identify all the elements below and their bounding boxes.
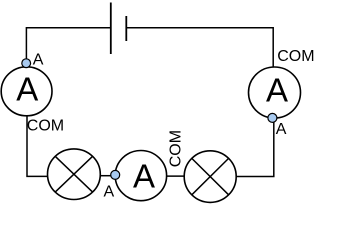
ammeter 3 middle (meter body) — [115, 151, 166, 201]
ammeter 1 left (meter body) — [1, 67, 52, 116]
node dot A terminal of ammeter 3 (blue junction) — [111, 170, 120, 179]
battery short plate (negative) — [125, 16, 127, 41]
battery long plate (positive) — [110, 3, 112, 55]
lamp 2 (bulb body) — [184, 151, 236, 203]
wire middle ammeter COM terminal to lamp 2 — [167, 175, 185, 177]
lamp 1 X cross — [55, 156, 92, 192]
svg-text:A: A — [104, 184, 115, 201]
svg-text:A: A — [133, 157, 155, 194]
svg-text:COM: COM — [27, 117, 64, 134]
node dot A terminal of ammeter 1 (blue junction) — [22, 59, 31, 68]
node dot A terminal of ammeter 2 (blue junction) — [268, 113, 277, 122]
lamp 2 X cross — [192, 158, 229, 194]
svg-text:A: A — [33, 52, 44, 69]
svg-text:A: A — [16, 70, 38, 107]
svg-text:COM: COM — [277, 48, 314, 65]
svg-text:COM: COM — [168, 130, 185, 167]
wire lamp 1 to middle ammeter A terminal — [100, 175, 115, 177]
ammeter 2 right (meter body) — [249, 67, 301, 118]
wire lamp 2 to right ammeter A terminal (riser) — [236, 118, 274, 177]
wire top-right (battery to right ammeter COM terminal) — [126, 28, 273, 68]
lamp 1 (bulb body) — [48, 149, 101, 200]
svg-text:A: A — [266, 71, 288, 108]
wire left vertical (left ammeter COM terminal down to bottom corner, to lamp 1) — [27, 116, 48, 176]
svg-text:A: A — [276, 121, 287, 138]
wire top-left (battery negative lead to left ammeter A terminal) — [26, 28, 110, 63]
